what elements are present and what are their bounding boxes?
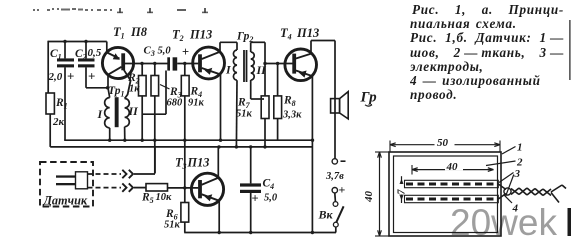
- svg-text:91к: 91к: [188, 98, 205, 109]
- svg-text:2,0: 2,0: [48, 71, 63, 83]
- svg-text:Т1: Т1: [113, 25, 125, 41]
- svg-text:+: +: [67, 69, 74, 84]
- svg-text:2: 2: [516, 157, 523, 169]
- svg-text:С3: С3: [144, 45, 155, 59]
- svg-text:R5: R5: [141, 192, 154, 206]
- svg-text:+: +: [252, 192, 259, 206]
- svg-text:Т4: Т4: [280, 26, 292, 42]
- svg-text:П13: П13: [187, 156, 210, 170]
- svg-text:20wek: 20wek: [450, 202, 557, 243]
- svg-text:4: 4: [512, 203, 519, 215]
- svg-text:3,3к: 3,3к: [282, 110, 302, 121]
- svg-text:+: +: [88, 69, 95, 84]
- svg-text:51к: 51к: [164, 220, 181, 231]
- svg-text:I: I: [225, 63, 232, 77]
- svg-text:С4: С4: [263, 178, 275, 192]
- svg-text:5,0: 5,0: [264, 193, 278, 204]
- svg-text:I: I: [97, 107, 104, 121]
- svg-text:R8: R8: [283, 95, 296, 109]
- svg-text:3: 3: [514, 168, 521, 180]
- svg-text:Датчик: Датчик: [43, 194, 88, 208]
- svg-text:1к: 1к: [129, 84, 140, 95]
- svg-text:50: 50: [437, 137, 449, 149]
- svg-text:П13: П13: [189, 28, 212, 42]
- svg-text:+: +: [339, 183, 346, 197]
- svg-text:51к: 51к: [236, 109, 253, 120]
- svg-text:+: +: [182, 45, 189, 59]
- svg-text:П13: П13: [296, 26, 319, 40]
- svg-text:Вк: Вк: [318, 208, 334, 222]
- svg-text:5,0: 5,0: [158, 46, 172, 57]
- svg-text:680: 680: [167, 98, 184, 109]
- svg-text:С1: С1: [50, 48, 62, 62]
- svg-text:Тр1: Тр1: [108, 85, 125, 99]
- svg-text:10к: 10к: [156, 192, 173, 203]
- svg-text:П8: П8: [130, 25, 148, 39]
- svg-text:40: 40: [446, 161, 459, 173]
- svg-text:С2: С2: [75, 48, 87, 62]
- svg-text:3,7в: 3,7в: [325, 171, 344, 182]
- svg-text:Гр: Гр: [360, 90, 378, 106]
- svg-text:2к: 2к: [52, 116, 65, 128]
- svg-text:40: 40: [363, 191, 375, 204]
- svg-text:1: 1: [517, 142, 523, 154]
- svg-text:0,5: 0,5: [88, 47, 102, 59]
- svg-text:II: II: [128, 104, 140, 118]
- svg-text:Т2: Т2: [172, 28, 184, 44]
